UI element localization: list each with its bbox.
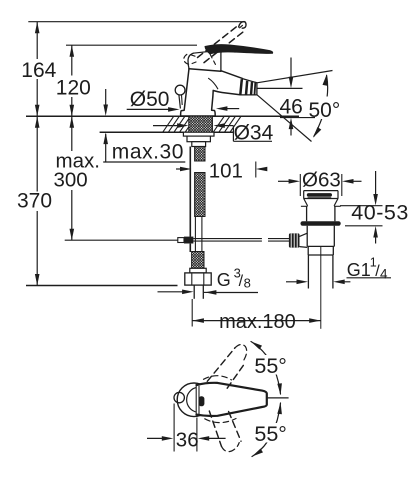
svg-text:G: G (217, 270, 231, 290)
svg-text:120: 120 (56, 77, 91, 100)
svg-text:46: 46 (280, 95, 303, 118)
svg-text:Ø50: Ø50 (130, 88, 170, 111)
svg-text:101: 101 (209, 160, 243, 183)
svg-text:40-53: 40-53 (351, 200, 409, 224)
svg-text:370: 370 (17, 189, 52, 212)
svg-text:300: 300 (54, 169, 88, 192)
svg-text:55°: 55° (254, 422, 287, 446)
svg-text:4: 4 (380, 266, 388, 281)
svg-text:Ø63: Ø63 (302, 169, 341, 192)
svg-text:36: 36 (176, 429, 199, 452)
svg-text:max.30: max.30 (112, 141, 184, 164)
svg-text:164: 164 (21, 59, 56, 82)
svg-text:55°: 55° (254, 354, 287, 378)
svg-text:G1: G1 (347, 260, 371, 280)
svg-text:max.180: max.180 (219, 311, 296, 333)
svg-text:50°: 50° (309, 99, 341, 122)
svg-text:8: 8 (244, 275, 251, 290)
svg-text:Ø34: Ø34 (234, 121, 274, 144)
